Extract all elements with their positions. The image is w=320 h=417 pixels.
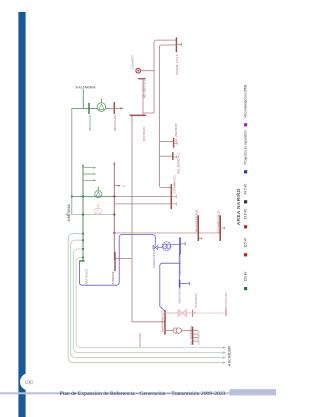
transformer bowtie PALO	[178, 309, 186, 316]
bus JUNIN end tick	[114, 253, 116, 271]
wire gen junction down to pasto	[143, 71, 154, 113]
wire ecuador branch 1	[68, 234, 223, 363]
svg-text:IPIALES115: IPIALES115	[224, 292, 228, 308]
node junctions staircase	[82, 233, 84, 235]
sidebar bar	[18, 12, 25, 417]
svg-text:Recomendación UPME: Recomendación UPME	[244, 84, 248, 117]
svg-text:CATAMBUCO: CATAMBUCO	[172, 175, 176, 194]
legend swatch 13.8kV	[244, 225, 247, 228]
svg-text:Plan de Expansión de Referenci: Plan de Expansión de Referencia - Genera…	[60, 390, 226, 397]
svg-text:PANAM115: PANAM115	[194, 293, 198, 308]
svg-text:PASTO220: PASTO220	[85, 269, 89, 284]
svg-text:PANAMERICANA: PANAMERICANA	[195, 209, 199, 232]
wire to catambuco 2	[114, 203, 171, 205]
wire ecuador branch 4	[76, 258, 223, 348]
svg-text:JAMONDINO115: JAMONDINO115	[152, 246, 156, 268]
node junctions on main vertical	[113, 195, 115, 197]
svg-text:JAMONDINO115: JAMONDINO115	[160, 311, 164, 333]
feeder arrows pasto220	[83, 168, 95, 181]
svg-text:CATAM34.5: CATAM34.5	[196, 331, 200, 345]
wire bowtie line cont	[197, 312, 226, 314]
transformer T-PASTO2 circle faint	[97, 206, 99, 209]
svg-text:SJUANITO: SJUANITO	[131, 55, 135, 70]
svg-text:AREA NARIÑO: AREA NARIÑO	[235, 188, 242, 225]
wire gen to corner	[141, 40, 177, 71]
svg-text:190: 190	[25, 380, 33, 386]
svg-text:CATAMBUCO115: CATAMBUCO115	[216, 210, 220, 233]
svg-text:LA_JOSEFINA: LA_JOSEFINA	[189, 326, 193, 345]
wire pasto220-jamondino U path	[79, 235, 155, 286]
transformer MOCOA red side	[106, 107, 115, 109]
tick and arrow after bowtie	[192, 310, 194, 316]
bus CATAMBUCO	[170, 185, 172, 209]
wire bowtie line	[165, 312, 193, 314]
svg-text:PASTO115: PASTO115	[142, 127, 146, 142]
wire panamericana long line	[114, 232, 220, 234]
generator SJUANITO	[136, 68, 141, 73]
bus tick lower	[179, 281, 181, 288]
svg-text:EL_ZNA58115: EL_ZNA58115	[174, 123, 178, 142]
bus MOCOA 115	[113, 103, 115, 113]
transformer OO la josefina	[173, 328, 178, 333]
svg-text:34.5 kV: 34.5 kV	[244, 183, 248, 195]
svg-text:MOCOA115: MOCOA115	[113, 115, 117, 131]
svg-text:A ALTAMIRA: A ALTAMIRA	[76, 86, 97, 90]
wire betania vertical	[71, 108, 73, 214]
load arrow mocoa115	[114, 107, 121, 109]
svg-text:A BETANIA: A BETANIA	[67, 203, 71, 221]
wire jam230 to red jamondino115	[160, 263, 180, 311]
svg-text:115 kV: 115 kV	[244, 237, 248, 248]
bus PASTO 220 vertical	[82, 167, 84, 260]
svg-text:JAMONDINO230: JAMONDINO230	[178, 254, 182, 277]
svg-text:MOCOA230: MOCOA230	[88, 114, 92, 131]
load arrow jam230	[180, 242, 185, 245]
svg-text:Proyectos de expansión: Proyectos de expansión	[244, 130, 248, 164]
transformer T-PASTO1 circle	[97, 188, 99, 191]
legend swatch proyectos	[244, 170, 247, 173]
wire ecuador branch 3	[73, 249, 223, 353]
legend swatch 34.5kV	[244, 200, 247, 203]
load arrow lower	[180, 282, 190, 285]
load arrows catambuco	[171, 195, 176, 198]
footer end box	[230, 389, 277, 395]
bus SJUANITO 13.8	[175, 38, 177, 52]
bus JAMONDINO 115 red	[164, 311, 166, 334]
page number circle	[20, 373, 37, 390]
branch bus tick 2	[160, 155, 173, 157]
transformer new (dashed circle)	[162, 242, 171, 251]
bus MD_BRITO 13.8	[139, 78, 146, 79]
legend swatch 115kV	[244, 253, 247, 256]
bus PASTO 220 tick	[80, 260, 85, 262]
wire ecuador branch 2	[71, 240, 224, 357]
legend swatch 220kV	[244, 287, 247, 290]
bus PANAMERICANA	[197, 216, 199, 240]
wire pasto red to catambuco 1	[114, 195, 171, 197]
legend swatch recomendacion	[244, 123, 247, 126]
bus LA JOSEFINA feeders	[192, 327, 194, 344]
wire jam bus chain down	[178, 254, 180, 281]
svg-text:13.8 kV: 13.8 kV	[244, 208, 248, 220]
wire main 115 vertical	[113, 165, 115, 259]
svg-text:220 kV: 220 kV	[244, 271, 248, 282]
svg-text:PASTO115: PASTO115	[138, 332, 142, 347]
svg-text:JUNIN115: JUNIN115	[111, 271, 115, 285]
svg-text:RIO_BOBO34.5: RIO_BOBO34.5	[176, 153, 180, 174]
bus CATAMBUCO 115	[219, 216, 221, 240]
load arrow sj bus	[176, 43, 181, 45]
wire pasto115 long down	[132, 116, 165, 322]
svg-text:PANAM_JT13.8: PANAM_JT13.8	[175, 54, 179, 75]
arrowheads a ecuador	[223, 346, 227, 364]
wire to dashed transformer	[158, 246, 162, 248]
transformer T-MOCOA circle	[100, 100, 102, 103]
svg-text:A ECUADOR: A ECUADOR	[228, 345, 232, 366]
bus MOCOA 230	[88, 104, 90, 114]
node junctions on pasto bus	[82, 195, 84, 197]
wire altamira drop	[82, 90, 84, 109]
branch bus tick 1	[160, 140, 174, 142]
wire mocoa 230 bus line	[72, 107, 97, 109]
load stub arrow	[114, 185, 119, 187]
bus end tick right	[225, 309, 227, 315]
wire tap to junin	[115, 258, 132, 260]
wire pasto line 2 (faint)	[66, 214, 114, 216]
wire pasto line 1 (green part)	[72, 195, 115, 197]
bowtie jamondino tap	[153, 245, 158, 249]
svg-text:MOCOA230: MOCOA230	[177, 287, 181, 303]
bus PASTO 115	[130, 115, 146, 117]
footer rule	[0, 392, 230, 394]
wire transformer OO line	[165, 330, 193, 332]
wire md brito drop	[142, 79, 144, 115]
wire transformer to jam230 bus	[172, 243, 180, 245]
bus JAMONDINO 230	[179, 238, 181, 253]
wire sj to catambuco long	[160, 45, 177, 188]
